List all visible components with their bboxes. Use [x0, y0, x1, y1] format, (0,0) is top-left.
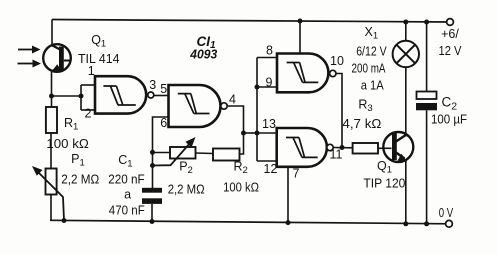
node tie-pin9	[255, 85, 260, 90]
svg-text:+6/: +6/	[441, 27, 459, 41]
svg-text:12: 12	[264, 162, 278, 176]
wire C2 bottom	[426, 110, 428, 224]
svg-text:3: 3	[149, 78, 156, 92]
wire pin7 ground	[287, 167, 289, 223]
P1 wiper arrow	[32, 166, 64, 221]
node gate1 input tie	[79, 94, 84, 99]
svg-text:a: a	[124, 187, 131, 201]
terminal 0V	[446, 220, 453, 227]
wire pin14 supply	[299, 21, 301, 54]
node pin14 rail	[298, 19, 303, 24]
svg-text:4093: 4093	[189, 48, 217, 62]
wire pin10 output down	[336, 74, 342, 148]
gate3 output bubble pin10	[330, 70, 336, 76]
svg-text:470 nF: 470 nF	[109, 204, 145, 218]
gate4 schmitt glyph	[286, 138, 318, 158]
node C2 bottom rail	[424, 221, 429, 226]
node C2 top rail	[424, 20, 429, 25]
svg-text:a 1A: a 1A	[361, 78, 385, 92]
node lamp rail	[403, 20, 408, 25]
wire P2 to R2	[196, 152, 214, 155]
wire collector to lamp	[405, 67, 407, 137]
svg-text:2,2 MΩ: 2,2 MΩ	[168, 183, 205, 197]
wire lamp top	[405, 22, 407, 41]
wire node to gate1 inputs	[52, 85, 96, 110]
gate2 schmitt glyph	[178, 94, 210, 114]
wire pin3 to pin5	[154, 95, 169, 97]
P2 wiper arrow	[153, 137, 196, 166]
node outputs join	[340, 145, 345, 150]
svg-text:TIP 120: TIP 120	[363, 177, 405, 191]
wire C2 top	[426, 22, 428, 92]
svg-text:7: 7	[293, 167, 300, 181]
wire P2 left	[153, 152, 171, 154]
wire R1 to P1	[50, 133, 52, 169]
lamp X1	[393, 41, 419, 67]
wire pin6 to feedback node	[153, 117, 169, 188]
node tie-pin13	[255, 131, 260, 136]
wire tie line gates 3-4 inputs	[244, 58, 278, 162]
wire left rail top segment	[51, 20, 53, 45]
svg-text:8: 8	[266, 44, 273, 58]
node C1 on rail	[150, 219, 155, 224]
node P2 wiper	[150, 163, 155, 168]
svg-text:200 mA: 200 mA	[352, 62, 387, 76]
resistor R2	[213, 149, 240, 161]
gate1 schmitt glyph	[103, 86, 135, 105]
svg-text:2: 2	[85, 107, 92, 121]
capacitor C1	[142, 188, 162, 204]
gate2 output bubble pin4	[221, 103, 227, 109]
svg-text:220 nF: 220 nF	[108, 173, 145, 187]
wire emitter to node	[51, 72, 53, 107]
svg-text:9: 9	[266, 76, 273, 90]
op-amp U1a NAND gate 1	[95, 76, 146, 113]
svg-text:6: 6	[160, 116, 167, 130]
wire emitter to rail	[405, 161, 407, 224]
gate1 output bubble pin3	[148, 92, 154, 98]
gate3 schmitt glyph	[287, 63, 319, 83]
potentiometer P2	[170, 147, 196, 159]
svg-text:13: 13	[262, 117, 276, 131]
wire pin11 to R3	[333, 147, 352, 149]
svg-text:5: 5	[160, 82, 167, 96]
transistor Q1 TIP 120	[383, 132, 413, 162]
svg-text:6/12 V: 6/12 V	[356, 45, 387, 59]
node R2-pin13	[241, 131, 246, 136]
resistor R3	[353, 143, 378, 154]
svg-text:100 kΩ: 100 kΩ	[223, 181, 259, 195]
wire top +V rail	[52, 20, 449, 23]
transistor Q1 TIL 414 (phototransistor)	[43, 44, 71, 72]
svg-text:4: 4	[229, 93, 236, 107]
wire pin4 output to tie	[227, 106, 243, 133]
resistor R1	[46, 107, 57, 133]
svg-text:11: 11	[330, 148, 343, 162]
op-amp U1c NAND gate 3	[277, 54, 328, 93]
node pin7 rail	[286, 220, 291, 225]
svg-text:2,2 MΩ: 2,2 MΩ	[61, 173, 99, 187]
light arrow 2	[18, 60, 42, 68]
node emitter rail	[403, 221, 408, 226]
node P2 left	[150, 150, 155, 155]
capacitor C2	[417, 92, 437, 100]
wire bottom 0V rail	[50, 220, 449, 224]
node junction left	[49, 94, 54, 99]
gate4 output bubble pin11	[327, 144, 333, 150]
svg-text:100 µF: 100 µF	[431, 113, 467, 127]
wire C1 bottom	[151, 204, 153, 222]
svg-text:12 V: 12 V	[439, 44, 463, 58]
svg-text:4,7 kΩ: 4,7 kΩ	[342, 117, 381, 131]
wire P1 bottom	[50, 195, 52, 221]
op-amp U1d NAND gate 4	[277, 128, 327, 167]
op-amp U1b NAND gate 2	[169, 85, 221, 127]
wire R2 right up	[240, 133, 244, 154]
svg-text:TIL 414: TIL 414	[78, 52, 120, 66]
svg-text:1: 1	[88, 64, 95, 78]
light arrow 1	[18, 46, 41, 54]
potentiometer P1	[46, 169, 57, 195]
wire R3 to base	[378, 147, 392, 149]
svg-text:100 kΩ: 100 kΩ	[46, 137, 88, 151]
svg-text:0 V: 0 V	[439, 206, 454, 220]
node P1 wiper on rail	[62, 218, 67, 223]
svg-text:10: 10	[330, 54, 344, 68]
terminal +V	[447, 19, 454, 26]
